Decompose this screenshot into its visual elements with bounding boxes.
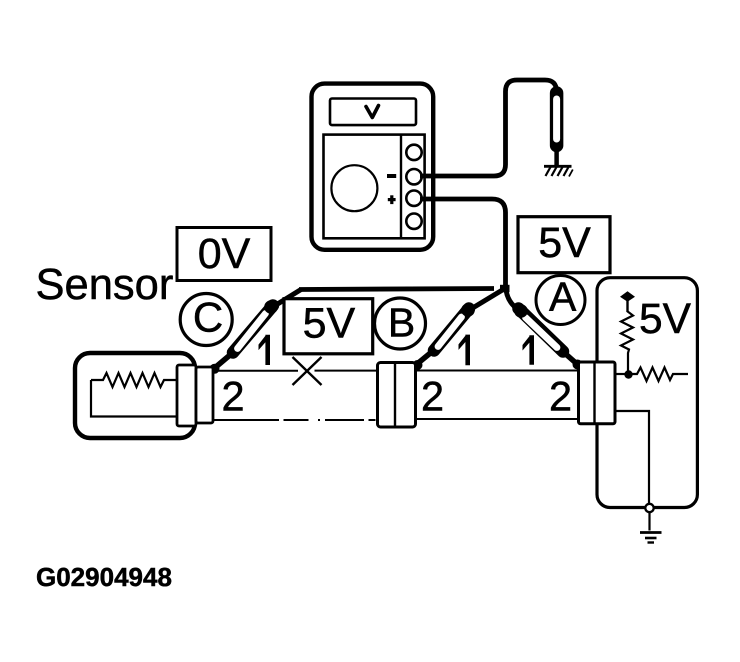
pin 1 label (connector B): [459, 335, 471, 366]
label box: 5V reading (middle): [284, 299, 373, 354]
ground: chassis ground under negative probe: [544, 166, 573, 176]
svg-text:Sensor: Sensor: [36, 261, 174, 309]
pin 1 label (connector C): [259, 335, 271, 365]
node: ground terminal circle on ECU edge: [645, 504, 653, 531]
wire: minus lead from meter to ground probe: [420, 80, 557, 176]
resistor: pull-up inside ECU: [621, 311, 633, 371]
node: X break mark on wire: [293, 357, 322, 385]
pin 2 label (connector C): [221, 373, 244, 420]
connector: sensor-side connector (left): [177, 365, 213, 426]
probe A body: [514, 304, 582, 369]
multimeter panel: [324, 135, 425, 239]
pin 2 label (connector B): [421, 373, 444, 420]
wire: harness lower line (right segment): [415, 418, 579, 420]
label box: 5V reading (right): [518, 217, 610, 273]
svg-text:5V: 5V: [303, 300, 356, 348]
wire: sensor internal loop: [91, 380, 178, 417]
wire: junction to probe C (horizontal run with photocopy gap): [274, 289, 495, 307]
svg-text:B: B: [388, 300, 415, 346]
node C circled letter: [180, 294, 232, 346]
wire: junction to probe A: [506, 285, 521, 311]
node A circled letter: [536, 274, 585, 325]
label: Sensor: [36, 261, 174, 309]
ground: ECU ground symbol: [640, 533, 662, 543]
svg-text:5V: 5V: [639, 296, 692, 343]
plus terminal label: [388, 195, 396, 204]
V function label on display: [366, 106, 379, 118]
power symbol: 5V supply arrow: [620, 291, 635, 312]
multimeter terminal jacks: [406, 145, 421, 229]
resistor: series resistor inside ECU: [631, 368, 688, 382]
pin 1 label (connector A): [523, 335, 535, 365]
wire: harness top line (left segment): [215, 370, 377, 372]
wire: connector pin 1 to junction: [615, 373, 626, 375]
probe: negative test probe (vertical): [550, 93, 564, 166]
wire: harness lower line (left segment): [213, 419, 377, 421]
svg-text:G02904948: G02904948: [36, 562, 172, 592]
connector: middle connector: [378, 363, 416, 428]
resistor inside sensor: [91, 373, 178, 387]
wire: harness top line (right segment): [415, 370, 579, 372]
svg-text:A: A: [549, 274, 577, 320]
probe B body: [413, 303, 475, 370]
node: junction dot inside ECU: [624, 370, 632, 378]
label: 5V inside ECU: [639, 296, 692, 343]
probe C body: [210, 300, 278, 374]
multimeter display: [330, 99, 416, 126]
svg-text:C: C: [193, 294, 223, 341]
multimeter U1 body: [312, 84, 434, 250]
svg-text:2: 2: [221, 373, 244, 420]
svg-text:2: 2: [421, 373, 444, 420]
ECU box: [597, 278, 697, 508]
pin 2 label (connector A): [549, 373, 572, 420]
wire: junction to probe B: [469, 289, 505, 311]
svg-text:2: 2: [549, 373, 572, 420]
label: figure number G02904948: [36, 562, 172, 592]
svg-text:5V: 5V: [538, 219, 591, 267]
svg-text:0V: 0V: [198, 230, 251, 278]
sensor body (left): [75, 353, 195, 438]
minus terminal label: [387, 174, 396, 178]
wire: connector pin 2 to internal ground: [615, 411, 649, 505]
label box: 0V reading: [177, 228, 271, 281]
node: probe junction: [500, 285, 510, 292]
node B circled letter: [375, 298, 426, 349]
wire: plus lead from meter down to probe junction: [420, 199, 506, 288]
connector: ECU-side connector (right): [579, 362, 616, 424]
multimeter dial: [331, 165, 377, 211]
